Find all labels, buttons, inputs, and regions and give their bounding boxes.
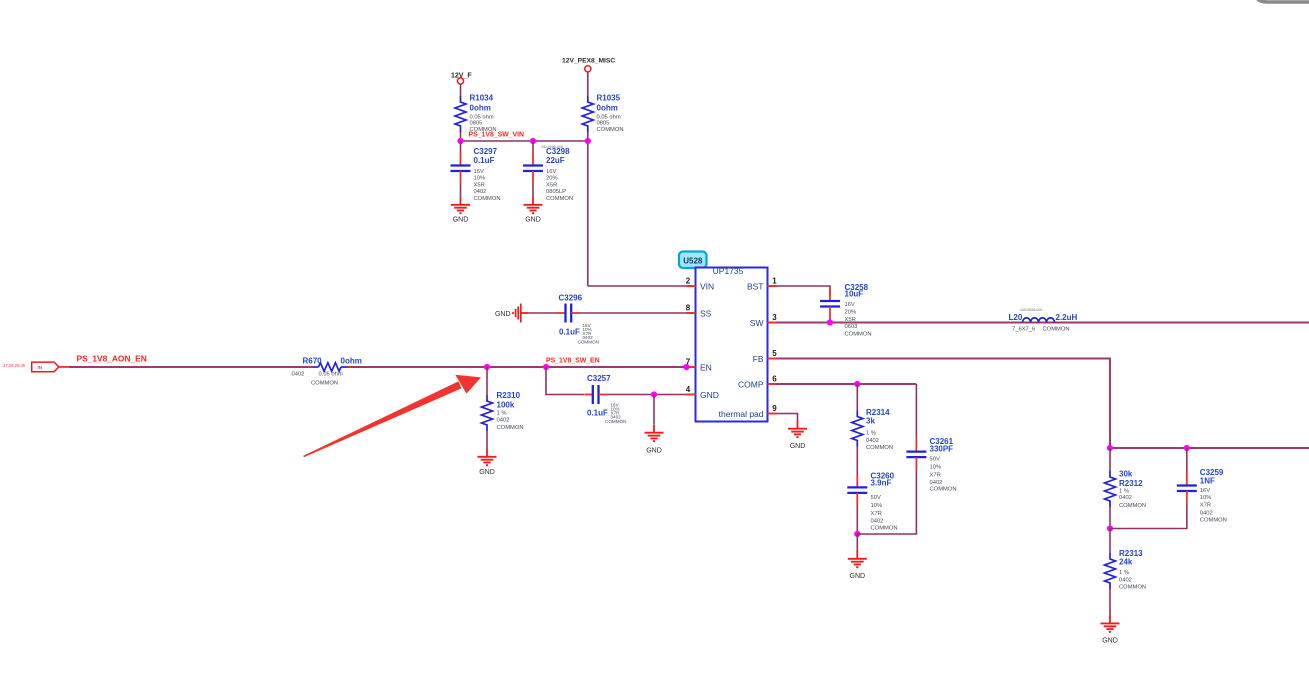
junction (1107, 525, 1113, 531)
wire (460, 132, 462, 141)
svg-text:COMMON: COMMON (930, 487, 957, 493)
junction (530, 138, 536, 144)
wire VIN (588, 285, 687, 287)
svg-text:22uF: 22uF (546, 156, 565, 165)
svg-text:U528: U528 (683, 257, 703, 266)
capacitor C3258 (820, 289, 840, 320)
wire (915, 384, 917, 440)
svg-text:0402: 0402 (1119, 495, 1132, 501)
svg-text:COMMON: COMMON (866, 445, 893, 451)
wire port stub (59, 366, 69, 368)
svg-text:16V: 16V (1200, 488, 1210, 494)
svg-text:GND: GND (479, 469, 495, 476)
svg-text:0ohm: 0ohm (597, 104, 618, 113)
pin 2 (687, 285, 696, 287)
svg-text:24k: 24k (1119, 558, 1133, 567)
svg-text:X5R: X5R (474, 182, 485, 188)
wire BST (777, 286, 831, 294)
svg-text:GND: GND (1102, 638, 1118, 645)
port IN (32, 362, 59, 372)
junction (457, 138, 463, 144)
annotation arrow (303, 375, 481, 458)
svg-text:100k: 100k (497, 401, 515, 410)
svg-text:330PF: 330PF (930, 445, 954, 454)
svg-text:GND: GND (700, 390, 719, 400)
svg-text:5: 5 (772, 349, 777, 358)
resistor R2310 (482, 395, 493, 431)
resistor R2312 (1105, 471, 1116, 507)
inductor L20 (1023, 318, 1055, 323)
svg-text:0.05 ohm: 0.05 ohm (319, 372, 343, 378)
svg-text:X7R: X7R (1200, 503, 1211, 509)
wire (1109, 589, 1111, 616)
svg-text:0805: 0805 (597, 121, 610, 127)
wire SS to pin (580, 312, 687, 314)
pin 6 (768, 383, 777, 385)
svg-text:C3257: C3257 (587, 374, 611, 383)
svg-text:C3296: C3296 (559, 294, 583, 303)
svg-text:16V: 16V (474, 169, 484, 175)
wire (829, 319, 831, 323)
svg-text:30k: 30k (1119, 470, 1133, 479)
svg-text:COMMON: COMMON (311, 381, 338, 387)
wire FB row (1110, 447, 1309, 449)
wire (486, 367, 488, 395)
wire (1186, 448, 1188, 473)
svg-text:10%: 10% (930, 465, 942, 471)
svg-text:EN: EN (700, 362, 712, 372)
junction (651, 391, 657, 397)
svg-text:R670: R670 (303, 357, 323, 366)
wire (587, 72, 589, 96)
svg-text:X7R: X7R (930, 472, 941, 478)
svg-text:R1034: R1034 (470, 94, 494, 103)
wire vertical bus to VIN (587, 132, 589, 286)
wire COMP (777, 383, 917, 385)
resistor R2314 (852, 411, 863, 447)
wire (856, 534, 858, 552)
svg-text:X7R: X7R (871, 511, 882, 517)
svg-text:0805: 0805 (470, 121, 483, 127)
svg-text:20%: 20% (546, 176, 558, 182)
svg-text:R1035: R1035 (597, 94, 621, 103)
capacitor C3260 (847, 475, 867, 506)
svg-text:VIN: VIN (700, 281, 714, 291)
svg-text:130-0538-000: 130-0538-000 (1020, 308, 1042, 312)
junction (683, 364, 689, 370)
svg-text:1NF: 1NF (1200, 477, 1215, 486)
svg-text:10%: 10% (1200, 495, 1212, 501)
resistor R1035 (582, 96, 593, 132)
ground (788, 421, 807, 437)
ground (524, 197, 543, 213)
svg-text:SS: SS (700, 308, 712, 318)
wire PS_1V8_SW_VIN bus (461, 140, 588, 142)
overlay corner (1256, 0, 1309, 2)
svg-text:C3298: C3298 (546, 147, 570, 156)
svg-text:COMP: COMP (738, 379, 764, 389)
capacitor C3261 (906, 439, 926, 470)
svg-text:2.2uH: 2.2uH (1056, 313, 1078, 322)
svg-text:COMMON: COMMON (578, 339, 599, 344)
svg-text:0402: 0402 (474, 189, 487, 195)
svg-text:X5R: X5R (546, 182, 557, 188)
pin 7 (687, 366, 696, 368)
svg-text:27,28,29,35: 27,28,29,35 (3, 363, 26, 368)
svg-text:50V: 50V (930, 456, 940, 462)
svg-text:GND: GND (495, 311, 511, 318)
svg-text:COMMON: COMMON (1200, 517, 1227, 523)
svg-text:1 %: 1 % (1119, 570, 1129, 576)
ground (451, 197, 470, 213)
svg-text:COMMON: COMMON (871, 526, 898, 532)
svg-text:0402: 0402 (292, 372, 305, 378)
svg-text:10%: 10% (474, 176, 486, 182)
svg-text:COMMON: COMMON (605, 419, 626, 424)
svg-text:IN: IN (38, 365, 43, 370)
wire SS (529, 312, 557, 314)
svg-text:GND: GND (525, 217, 541, 224)
svg-text:UP1735: UP1735 (713, 266, 744, 276)
svg-text:COMMON: COMMON (497, 425, 524, 431)
svg-text:10%: 10% (871, 503, 883, 509)
capacitor C3296 (557, 304, 580, 323)
ground (848, 551, 867, 567)
wire (856, 447, 858, 476)
U528 reference badge (679, 252, 707, 269)
wire (1109, 507, 1111, 529)
pin 1 (768, 285, 777, 287)
svg-text:10uF: 10uF (845, 290, 864, 299)
junction (827, 319, 833, 325)
svg-text:16V: 16V (845, 302, 855, 308)
svg-text:50V: 50V (871, 495, 881, 501)
junction (543, 364, 549, 370)
pin 9 (768, 413, 777, 415)
wire (857, 470, 916, 535)
svg-text:9: 9 (772, 404, 777, 413)
wire (460, 141, 462, 153)
svg-text:thermal pad: thermal pad (719, 409, 764, 419)
svg-text:12V_PEX8_MISC: 12V_PEX8_MISC (562, 58, 615, 65)
wire (1109, 448, 1111, 471)
wire (460, 184, 462, 198)
pin 4 (687, 394, 696, 396)
svg-text:0402: 0402 (1119, 577, 1132, 583)
capacitor C3298 (523, 153, 543, 184)
wire FB (777, 359, 1111, 449)
svg-text:0402: 0402 (497, 418, 510, 424)
wire thermal pad (777, 414, 798, 422)
svg-text:16V: 16V (546, 169, 556, 175)
svg-text:0.05 ohm: 0.05 ohm (470, 114, 494, 120)
wire to EN pin (351, 366, 687, 368)
svg-text:GND: GND (790, 443, 806, 450)
wire PS_1V8_AON_EN (69, 366, 308, 368)
svg-text:6: 6 (772, 375, 777, 384)
svg-text:1 %: 1 % (497, 411, 507, 417)
svg-text:7_6X7_6: 7_6X7_6 (1012, 327, 1035, 333)
wire (1110, 504, 1187, 529)
svg-text:0.1uF: 0.1uF (474, 156, 495, 165)
svg-text:GND: GND (646, 448, 662, 455)
resistor R670 (308, 366, 312, 368)
ground sideways (513, 304, 529, 323)
svg-text:SW: SW (750, 318, 764, 328)
svg-text:GND: GND (850, 573, 866, 580)
wire (486, 431, 488, 449)
svg-text:COMMON: COMMON (597, 127, 624, 133)
wire SW (777, 322, 1309, 324)
junction (1107, 445, 1113, 451)
wire (856, 384, 858, 411)
pin 5 (768, 358, 777, 360)
junction (854, 531, 860, 537)
terminal 12V_F (457, 78, 463, 84)
svg-text:C3297: C3297 (474, 147, 498, 156)
svg-text:0402: 0402 (871, 518, 884, 524)
svg-text:0ohm: 0ohm (470, 104, 491, 113)
capacitor C3259 (1177, 473, 1197, 504)
pin 3 (768, 322, 777, 324)
svg-text:1 %: 1 % (1119, 488, 1129, 494)
svg-text:COMMON: COMMON (546, 196, 573, 202)
junction (585, 138, 591, 144)
svg-text:4: 4 (686, 385, 691, 394)
svg-text:0402: 0402 (930, 480, 943, 486)
wire (1109, 529, 1111, 554)
junction (484, 364, 490, 370)
svg-text:3k: 3k (866, 416, 875, 425)
svg-text:0.1uF: 0.1uF (559, 328, 580, 337)
svg-text:L20: L20 (1009, 313, 1023, 322)
wire (532, 141, 534, 153)
svg-text:COMMON: COMMON (1119, 503, 1146, 509)
capacitor C3257 (584, 385, 607, 404)
svg-text:COMMON: COMMON (1043, 327, 1070, 333)
svg-text:0.05 ohm: 0.05 ohm (597, 114, 621, 120)
junction (1184, 445, 1190, 451)
wire (653, 395, 655, 425)
svg-text:2: 2 (686, 277, 691, 286)
svg-text:1: 1 (772, 277, 777, 286)
svg-text:COMMON: COMMON (845, 332, 872, 338)
junction (854, 381, 860, 387)
svg-text:PS_1V8_SW_VIN: PS_1V8_SW_VIN (469, 132, 525, 139)
resistor R1034 (455, 96, 466, 132)
resistor R2313 (1105, 553, 1116, 589)
svg-text:PS_1V8_SW_EN: PS_1V8_SW_EN (546, 358, 600, 365)
svg-text:0402: 0402 (866, 438, 879, 444)
svg-text:COMMON: COMMON (1119, 585, 1146, 591)
svg-text:R2312: R2312 (1119, 479, 1143, 488)
svg-text:0ohm: 0ohm (341, 357, 362, 366)
wire (546, 367, 584, 395)
ground (478, 449, 497, 465)
wire (856, 505, 858, 534)
svg-text:COMMON: COMMON (474, 196, 501, 202)
svg-text:PS_1V8_AON_EN: PS_1V8_AON_EN (77, 354, 147, 364)
svg-text:FB: FB (753, 354, 764, 364)
ground (645, 425, 664, 441)
capacitor C3297 (451, 153, 471, 184)
svg-text:0603: 0603 (845, 324, 858, 330)
svg-text:0805LP: 0805LP (546, 189, 566, 195)
svg-text:0.1uF: 0.1uF (587, 409, 608, 418)
svg-text:R2310: R2310 (497, 391, 521, 400)
wire (460, 84, 462, 96)
svg-text:GND: GND (453, 217, 469, 224)
svg-text:3.9nF: 3.9nF (871, 479, 892, 488)
svg-text:3: 3 (772, 313, 777, 322)
svg-text:8: 8 (686, 304, 691, 313)
svg-text:20%: 20% (845, 310, 857, 316)
wire (532, 184, 534, 198)
pin 8 (687, 312, 696, 314)
svg-text:BST: BST (747, 281, 764, 291)
svg-text:1 %: 1 % (866, 430, 876, 436)
terminal 12V_PEX8_MISC (585, 66, 591, 72)
svg-text:0402: 0402 (1200, 510, 1213, 516)
op-amp U528 body (696, 268, 768, 422)
wire to GND pin (607, 394, 687, 396)
ground (1101, 615, 1120, 631)
